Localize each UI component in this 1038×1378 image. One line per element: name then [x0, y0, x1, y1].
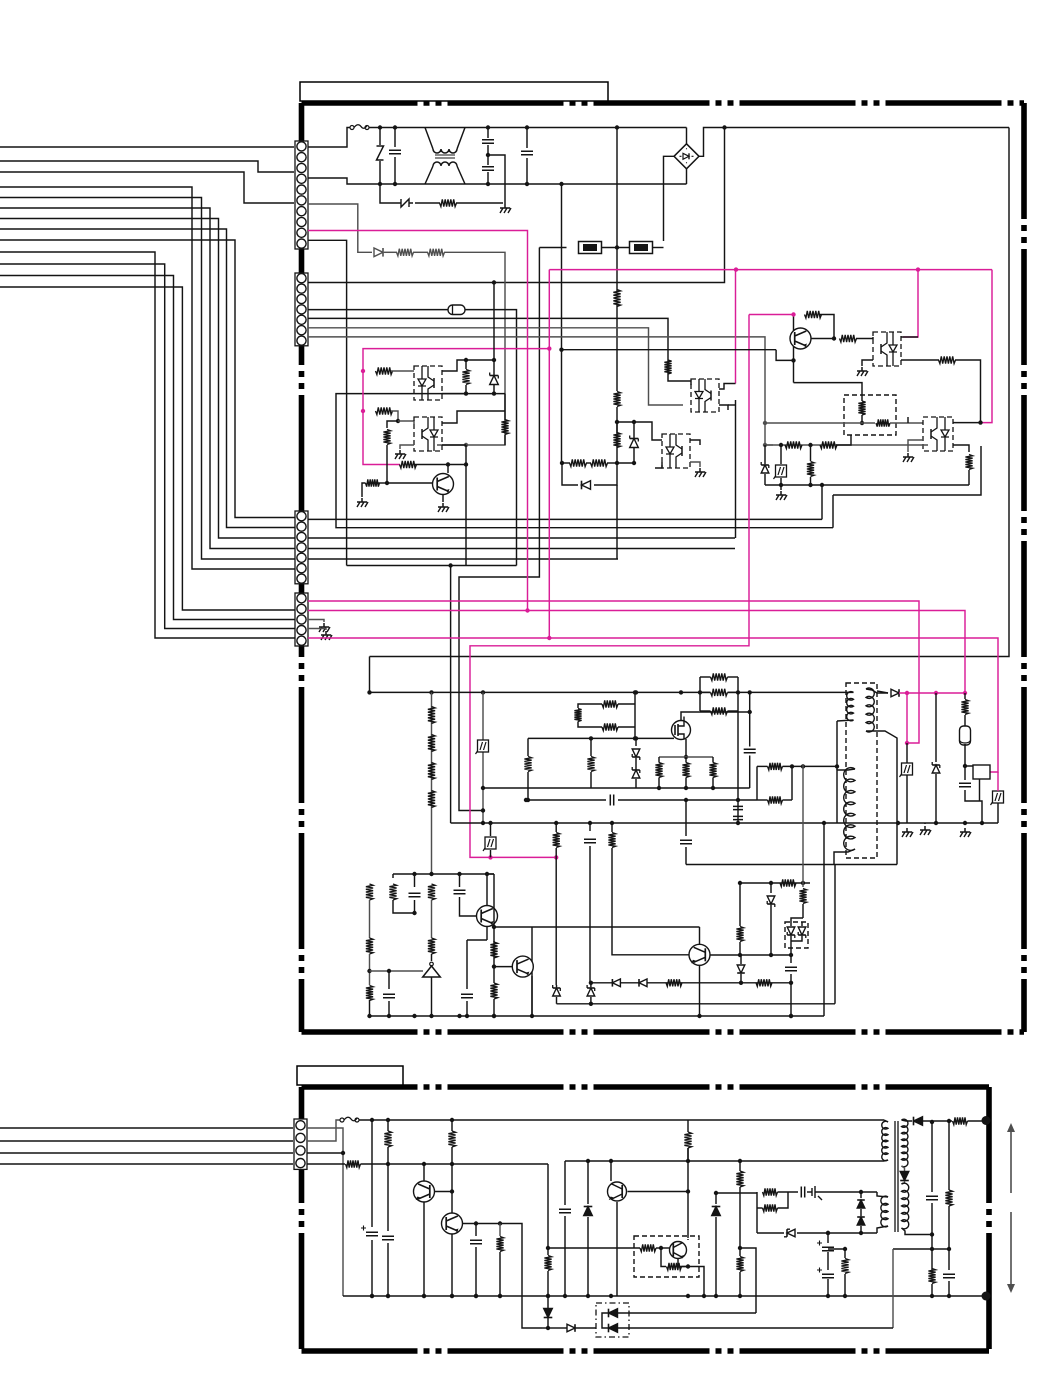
wire: [493, 874, 495, 927]
wire: [379, 161, 381, 184]
ground: [323, 623, 325, 627]
capacitor C19: [801, 1187, 804, 1198]
wire: [907, 417, 909, 423]
node junction: [498, 1294, 502, 1298]
node junction: [524, 798, 528, 802]
node junction: [930, 1120, 934, 1124]
node junction: [763, 421, 767, 425]
T2 aux winding L5: [881, 1196, 888, 1227]
wire: [442, 360, 494, 371]
wire: [780, 445, 782, 464]
wire magenta M6: [470, 315, 749, 858]
transistor Q8: [608, 1182, 627, 1201]
node junction: [748, 690, 752, 694]
transistor Q5: [689, 944, 710, 965]
wire: [740, 882, 810, 884]
wire: [362, 483, 366, 497]
wire: [861, 395, 863, 401]
wire: [562, 349, 777, 351]
wire fuse rail: [539, 247, 566, 249]
wire: [699, 677, 701, 711]
wire: [466, 1001, 468, 1016]
node junction: [387, 1014, 391, 1018]
node junction: [738, 1159, 742, 1163]
node junction: [589, 736, 593, 740]
wire: [827, 1252, 829, 1270]
wire CN5-4: [307, 1163, 345, 1165]
wire: [688, 1267, 704, 1297]
wire: [757, 1232, 784, 1234]
ground: [504, 204, 506, 208]
wire: [442, 393, 466, 395]
node junction: [978, 420, 982, 424]
node junction: [464, 462, 468, 466]
ground: [861, 367, 863, 371]
zener pair U9: [785, 922, 808, 948]
capacitor C24: [744, 749, 756, 753]
wire: [728, 404, 736, 406]
wire: [712, 757, 714, 763]
wire magenta M5 drop: [548, 270, 550, 638]
wire: [836, 435, 851, 445]
wire: [562, 462, 570, 464]
wire CN5-3: [307, 1152, 343, 1154]
wire: [834, 849, 855, 865]
capacitor C25: [454, 890, 466, 894]
node junction: [370, 1294, 374, 1298]
wire: [715, 1217, 717, 1296]
wire harness CN1-3: [0, 161, 294, 172]
wire: [699, 965, 701, 1016]
node junction: [367, 969, 371, 973]
wire: [459, 874, 461, 887]
transistor Q1: [433, 474, 454, 495]
wire: [487, 128, 489, 139]
wire: [547, 1248, 549, 1255]
node junction: [492, 280, 496, 284]
resistor R23: [820, 441, 837, 448]
transistor Q2: [790, 328, 811, 349]
node junction: [736, 690, 740, 694]
node junction: [429, 872, 433, 876]
box2 dashed border top: [302, 1084, 990, 1090]
wire: [547, 1164, 549, 1248]
resistor R9: [501, 420, 508, 435]
wire: [685, 757, 687, 763]
wire harness CN1-1: [0, 146, 294, 148]
wire: [431, 954, 433, 961]
wire: [655, 462, 662, 468]
wire: [740, 974, 742, 983]
wire: [801, 922, 803, 926]
diode ZD6: [767, 896, 775, 904]
MOSFET Q3: [672, 721, 691, 740]
node junction: [633, 690, 637, 694]
wire: [700, 676, 711, 678]
wire rail V5: [308, 558, 618, 560]
wire: [728, 710, 739, 712]
wire: [371, 1120, 373, 1227]
node junction: [822, 821, 826, 825]
node junction: [393, 125, 397, 129]
wire: [617, 421, 634, 423]
wire magenta gate feed: [363, 349, 549, 465]
wire: [369, 657, 371, 693]
node junction: [679, 690, 683, 694]
resistor R2b: [613, 392, 620, 407]
wire: [822, 1191, 877, 1193]
connector CN1: [295, 141, 308, 249]
node junction: [422, 1162, 426, 1166]
wire: [861, 415, 863, 423]
resistor R10: [711, 707, 728, 714]
resistor R13: [591, 459, 608, 466]
wire: [827, 1233, 829, 1243]
node junction: [738, 1294, 742, 1298]
wire: [486, 927, 488, 941]
wire: [783, 765, 838, 767]
transistor Q4: [512, 956, 533, 977]
diode D9: [712, 1207, 721, 1216]
wire: [790, 936, 792, 955]
wire: [737, 677, 739, 711]
wire: [797, 1232, 877, 1234]
wire: [618, 726, 635, 728]
wire: [556, 1327, 567, 1329]
wire: [394, 128, 396, 148]
diode ZD2: [630, 439, 639, 448]
transformer T1 outline: [846, 683, 877, 858]
photocoupler U5: [873, 332, 901, 366]
wire: [499, 1252, 501, 1296]
node junction: [860, 421, 864, 425]
wire: [578, 704, 602, 708]
wire: [557, 1003, 836, 1005]
ground: [399, 450, 401, 454]
wire: [379, 128, 381, 146]
wire: [687, 1239, 689, 1240]
node junction: [789, 1014, 793, 1018]
wire: [380, 184, 397, 203]
node junction: [370, 1118, 374, 1122]
wire: [616, 128, 618, 292]
diode D10: [857, 1200, 865, 1208]
node junction: [714, 1294, 718, 1298]
node junction: [930, 1247, 934, 1251]
crystal/filter FL1: [960, 726, 971, 745]
wire: [442, 444, 466, 446]
resistor R54: [667, 1263, 682, 1270]
wire CN5-1: [307, 1128, 343, 1296]
node junction: [659, 1246, 663, 1250]
wire: [635, 779, 637, 788]
wire: [884, 1160, 888, 1161]
wire: [685, 847, 687, 865]
node junction: [930, 1232, 934, 1236]
wire: [667, 360, 669, 374]
wire: [616, 485, 618, 556]
node junction: [530, 1014, 534, 1018]
node junction: [711, 786, 715, 790]
node junction: [386, 1294, 390, 1298]
transistor Q6: [414, 1181, 435, 1202]
wire: [700, 710, 711, 712]
resistor R7: [376, 407, 393, 414]
resistor R32: [608, 833, 615, 848]
resistor R60: [953, 1117, 968, 1124]
wire: [690, 462, 700, 467]
wire: [678, 1259, 688, 1267]
wire: [948, 1281, 950, 1296]
ferrite bead FB1: [448, 305, 465, 315]
wire: [756, 1192, 758, 1233]
node junction: [686, 1189, 690, 1193]
diode D8: [584, 1207, 593, 1216]
wire right drop to Vcc: [370, 128, 1010, 657]
wire: [968, 470, 970, 485]
wire: [504, 435, 506, 445]
node junction: [826, 1231, 830, 1235]
T2 secondary lower L7: [902, 1183, 909, 1229]
resistor R22: [785, 441, 802, 448]
wire: [618, 1327, 894, 1329]
wire CN1 aux: [308, 204, 372, 252]
wire: [719, 384, 736, 390]
node junction: [789, 981, 793, 985]
node junction: [560, 461, 564, 465]
node junction: [684, 786, 688, 790]
wire: [465, 445, 467, 566]
wire rail V6: [347, 565, 517, 567]
wire: [527, 738, 529, 756]
box2 dashed border bottom: [302, 1348, 990, 1354]
wire: [488, 155, 505, 204]
node junction: [896, 821, 900, 825]
wire: [463, 1224, 543, 1329]
resistor R11: [366, 479, 380, 486]
resistor R62: [945, 1190, 952, 1206]
node junction: [488, 821, 492, 825]
wire: [964, 715, 966, 726]
node junction: [826, 1294, 830, 1298]
aux winding L2: [866, 688, 874, 732]
wire harness CN3: [0, 240, 295, 518]
node junction: [738, 881, 742, 885]
wire: [844, 1274, 846, 1296]
primary winding L1: [847, 692, 854, 721]
wire: [457, 128, 465, 150]
wire: [965, 790, 982, 823]
wire harness CN3: [0, 187, 295, 569]
wire: [953, 422, 981, 424]
capacitor C14: [461, 994, 473, 998]
wire harness CN1-6: [0, 172, 294, 203]
wire: [587, 1161, 589, 1204]
wire: [715, 1193, 717, 1204]
wire CN2-7: [308, 337, 765, 445]
capacitor C13: [383, 994, 395, 998]
wire: [892, 1249, 894, 1328]
diode D3: [891, 689, 899, 697]
resistor R59: [841, 1259, 848, 1274]
wire: [765, 444, 773, 446]
T2 primary winding L4: [882, 1121, 888, 1161]
resistor R58: [763, 1204, 778, 1211]
node junction: [525, 608, 529, 612]
resistor R30: [768, 796, 783, 803]
capacitor C20: [822, 1247, 834, 1251]
node junction: [412, 911, 416, 915]
wire: [547, 1296, 549, 1308]
resistor R7: [709, 763, 716, 778]
wire: [778, 1191, 799, 1193]
bridge rectifier BR1: [674, 144, 699, 169]
wire rail V3: [308, 537, 735, 539]
wire: [602, 1313, 609, 1328]
node junction: [905, 691, 909, 695]
wire: [924, 823, 926, 824]
resistor R18: [939, 356, 956, 363]
wire: [634, 422, 662, 440]
node junction: [526, 798, 530, 802]
box2 dashed border left: [299, 1087, 305, 1351]
node junction: [450, 1294, 454, 1298]
wire: [447, 465, 449, 474]
wire: [388, 971, 390, 989]
wire primary GND rail: [451, 822, 998, 824]
node junction: [341, 1151, 345, 1155]
wire: [965, 766, 976, 770]
wire: [413, 251, 428, 253]
wire: [765, 422, 875, 424]
wire rail V4: [308, 548, 735, 550]
wire: [547, 1271, 549, 1296]
node junction: [498, 1294, 502, 1298]
node junction: [947, 1119, 951, 1123]
node junction: [609, 1294, 613, 1298]
inductor L2: [433, 162, 457, 166]
wire: [860, 1209, 862, 1216]
wire: [834, 865, 836, 1004]
node junction: [492, 964, 496, 968]
photocoupler U2: [414, 417, 442, 451]
wire: [590, 738, 592, 756]
node junction: [547, 346, 551, 350]
box1 dashed border bottom: [302, 1029, 1025, 1035]
capacitor C7: [733, 816, 743, 819]
node junction: [361, 369, 365, 373]
resistor R1: [440, 199, 457, 206]
wire: [594, 463, 617, 485]
resistor R27: [602, 700, 618, 707]
node junction: [492, 391, 496, 395]
wire drop to GND rail: [450, 566, 452, 824]
wire harness CN5: [0, 1140, 293, 1142]
wire: [616, 422, 618, 463]
node junction: [748, 710, 752, 714]
wire: [685, 778, 687, 789]
wire: [953, 445, 969, 452]
node junction: [525, 125, 529, 129]
wire: [656, 1247, 661, 1249]
node junction: [386, 1294, 390, 1298]
wire: [710, 954, 792, 956]
resistor R47: [346, 1160, 361, 1167]
wire: [398, 421, 414, 424]
wire: [490, 823, 492, 836]
wire: [757, 799, 768, 801]
photocoupler U1: [414, 366, 442, 400]
wire: [578, 722, 602, 728]
wire: [493, 999, 495, 1016]
wire: [387, 1243, 389, 1296]
wire: [884, 1120, 888, 1122]
diode D2: [582, 481, 591, 490]
wire: [866, 731, 897, 865]
node junction: [378, 182, 382, 186]
wire: [728, 691, 739, 693]
wire: [555, 823, 557, 832]
wire: [387, 1120, 389, 1131]
wire: [575, 1327, 596, 1329]
node junction: [492, 1014, 496, 1018]
wire drain: [681, 692, 750, 720]
node junction: [832, 336, 836, 340]
wire magenta M6a: [749, 314, 793, 316]
node junction: [367, 690, 371, 694]
wire: [700, 691, 711, 693]
wire: [832, 495, 834, 528]
node junction: [714, 1191, 718, 1195]
resistor R41: [428, 938, 435, 954]
wire: [739, 1161, 741, 1171]
node junction: [386, 1162, 390, 1166]
spark gap G1: [397, 199, 413, 207]
box2 dashed border right: [986, 1087, 992, 1351]
node junction: [686, 1294, 690, 1298]
node junction: [586, 1294, 590, 1298]
wire B+ to CN2: [308, 128, 725, 283]
resistor R36: [799, 889, 806, 904]
node junction: [697, 1014, 701, 1018]
node junction: [779, 483, 783, 487]
node junction: [396, 419, 400, 423]
diode D12: [914, 1117, 923, 1126]
wire: [493, 967, 495, 983]
wire startup chain: [431, 692, 433, 874]
box1 title box: [300, 82, 608, 101]
bias network U6: [844, 395, 896, 435]
thermistor TH4: [902, 763, 913, 775]
node junction: [492, 358, 496, 362]
wire: [493, 360, 495, 375]
node junction: [367, 1014, 371, 1018]
node junction: [474, 1221, 478, 1225]
wire: [587, 1217, 589, 1296]
resistor R2: [428, 735, 435, 752]
node junction: [632, 420, 636, 424]
wire: [780, 478, 782, 485]
resistor R3: [428, 763, 435, 780]
wire: [780, 485, 782, 490]
node junction: [963, 821, 967, 825]
resistor R45: [490, 942, 497, 958]
capacitor C23: [943, 1274, 955, 1278]
wire: [387, 421, 398, 428]
node junction: [450, 1118, 454, 1122]
node junction: [486, 125, 490, 129]
wire: [555, 848, 557, 985]
